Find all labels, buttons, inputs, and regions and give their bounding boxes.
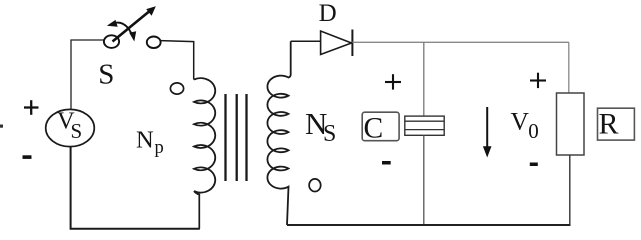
stray mark left edge [0, 125, 3, 128]
wire switch right contact to primary top [161, 41, 194, 80]
svg-text:V: V [511, 106, 530, 135]
label - (output) [530, 163, 538, 167]
transformer core [226, 94, 247, 181]
svg-text:0: 0 [528, 119, 539, 143]
switch S motion arrow [107, 20, 136, 42]
svg-text:S: S [98, 58, 114, 90]
wire top right corner to resistor top [568, 42, 570, 93]
svg-text:R: R [599, 107, 619, 140]
svg-text:D: D [319, 0, 337, 27]
arrow V0 current direction [483, 107, 492, 158]
wire resistor bottom [569, 155, 571, 225]
wire bottom left (VS return) [71, 147, 200, 229]
polarity dot primary [170, 83, 183, 94]
svg-text:S: S [323, 121, 336, 147]
wire VS top to switch left contact [71, 40, 104, 110]
inductor Ns secondary winding [267, 41, 290, 225]
wire bottom right (secondary return) [287, 224, 571, 226]
label C box [362, 112, 399, 144]
svg-text:N: N [136, 127, 154, 154]
voltage source VS [46, 107, 95, 146]
label R box [598, 107, 635, 140]
label Ns [305, 106, 336, 147]
label - (capacitor) [382, 161, 391, 165]
label + (output) [530, 73, 546, 88]
polarity dot secondary [309, 179, 321, 192]
resistor R [557, 93, 585, 155]
wire capacitor bottom to return [423, 135, 425, 225]
wire diode cathode to top right corner [352, 41, 569, 43]
switch S left contact [104, 35, 119, 48]
label Np [136, 127, 164, 158]
label + (VS positive) [24, 100, 39, 115]
diode D [321, 30, 353, 57]
svg-text:S: S [71, 119, 83, 143]
svg-text:C: C [364, 112, 384, 144]
capacitor C [405, 116, 444, 135]
switch S lever arrow [113, 6, 156, 41]
wire node to capacitor top [423, 42, 425, 116]
label + (capacitor) [385, 74, 401, 89]
inductor Np primary winding [194, 78, 215, 194]
wire primary bottom [198, 194, 200, 229]
svg-text:p: p [155, 138, 164, 158]
label - (VS negative) [23, 155, 32, 159]
switch S right contact [147, 37, 161, 49]
label V0 [511, 106, 539, 142]
wire secondary top to diode anode [291, 40, 321, 42]
